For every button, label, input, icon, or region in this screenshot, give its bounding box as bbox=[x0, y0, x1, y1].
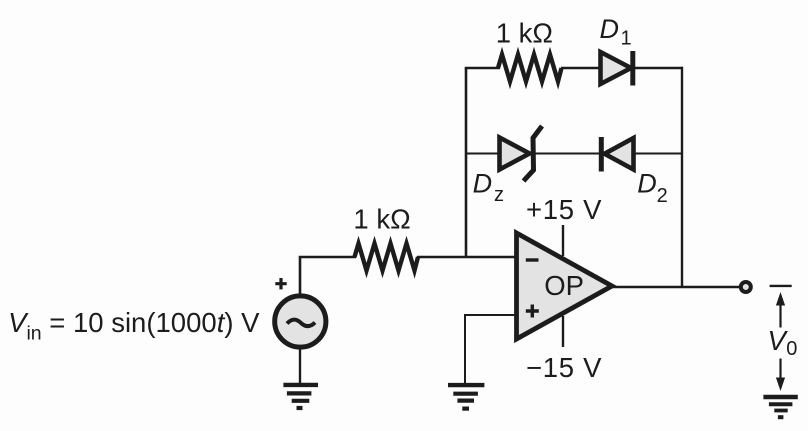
plus sign at source bbox=[275, 278, 286, 289]
resistor Rf 1 kOhm zigzag bbox=[498, 55, 562, 82]
ground (op-amp non-inverting input) bbox=[448, 385, 484, 409]
V0 top tick bbox=[770, 285, 792, 287]
diode D1 bbox=[601, 51, 633, 86]
output terminal bbox=[741, 282, 751, 292]
wire feedback right vertical bbox=[681, 67, 683, 287]
op-amp U1 bbox=[517, 233, 613, 339]
ground (output reference) bbox=[763, 397, 797, 417]
svg-text:1 kΩ: 1 kΩ bbox=[496, 18, 553, 49]
svg-text:1 kΩ: 1 kΩ bbox=[353, 204, 410, 235]
wire middle branch left segment bbox=[466, 153, 501, 155]
svg-text:D: D bbox=[637, 169, 657, 199]
diode D2 bbox=[601, 137, 633, 172]
svg-text:OP: OP bbox=[544, 270, 584, 301]
resistor Rin 1 kOhm zigzag bbox=[355, 244, 419, 271]
V0 up arrow bbox=[776, 292, 785, 328]
wire D1 to top-right corner bbox=[633, 67, 683, 69]
svg-text:0: 0 bbox=[786, 338, 797, 360]
svg-text:z: z bbox=[494, 184, 504, 206]
svg-text:1: 1 bbox=[621, 28, 632, 50]
svg-text:D: D bbox=[600, 14, 620, 44]
wire Dz to D2 bbox=[534, 153, 602, 155]
wire Rin to op-amp inverting input bbox=[417, 256, 517, 259]
wire op-amp output bbox=[610, 286, 741, 288]
V0 down arrow bbox=[776, 359, 785, 392]
wire +15V supply bbox=[562, 225, 564, 256]
svg-text:2: 2 bbox=[657, 185, 668, 207]
op-amp minus sign bbox=[526, 258, 539, 261]
op-amp plus sign bbox=[526, 305, 539, 318]
wire feedback left vertical bbox=[465, 68, 468, 257]
wire source riser bbox=[300, 257, 356, 295]
wire middle branch right segment bbox=[634, 153, 682, 155]
voltage source Vin bbox=[275, 296, 326, 347]
zener diode Dz bbox=[500, 126, 543, 181]
wire source to ground bbox=[299, 345, 301, 384]
ground (source) bbox=[283, 385, 318, 408]
wire non-inverting input bbox=[465, 315, 517, 383]
svg-text:Vin = 10 sin(1000t) V: Vin = 10 sin(1000t) V bbox=[8, 307, 260, 345]
wire -15V supply bbox=[562, 316, 564, 347]
wire between Rf and D1 bbox=[561, 67, 601, 69]
wire feedback top-left segment bbox=[465, 67, 500, 70]
svg-text:D: D bbox=[473, 169, 493, 199]
svg-text:+15 V: +15 V bbox=[526, 194, 602, 225]
svg-text:−15 V: −15 V bbox=[526, 352, 602, 383]
